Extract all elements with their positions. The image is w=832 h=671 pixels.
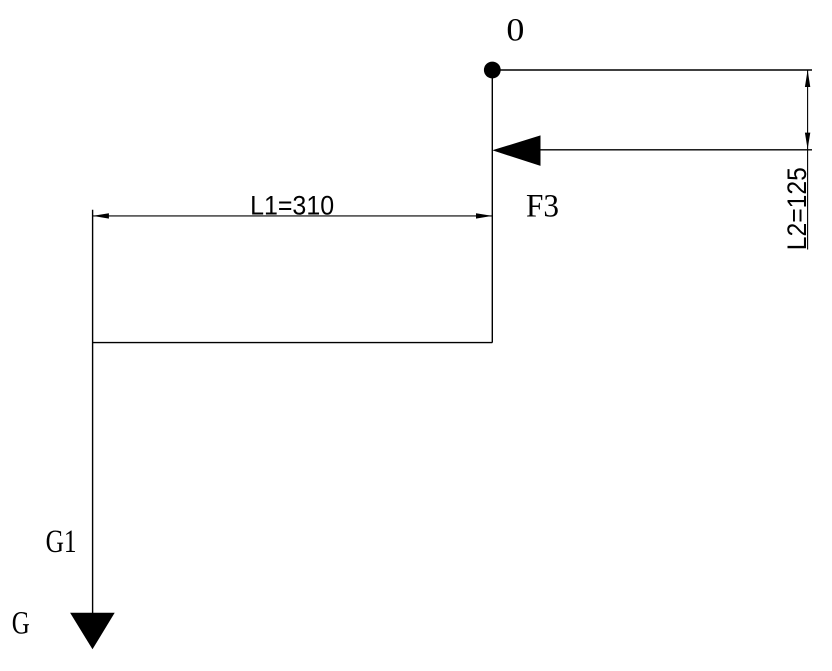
wire vertical member [491, 70, 493, 343]
dimension L1 right arrow [476, 213, 492, 218]
force G1 arrowhead [70, 613, 115, 650]
dimension L1 left arrow [93, 213, 109, 218]
dimension L2 bottom arrow [805, 133, 810, 150]
svg-text:G1: G1 [46, 524, 77, 560]
force F3 line [541, 149, 813, 151]
svg-text:G: G [12, 606, 30, 642]
force F3 arrowhead [492, 135, 540, 166]
wire top horizontal member [492, 69, 812, 71]
node O [484, 62, 501, 79]
wire bottom horizontal member [93, 342, 493, 344]
wire left vertical member / G1 force line [92, 210, 94, 614]
svg-text:0: 0 [506, 12, 524, 48]
dimension L2 line [807, 70, 809, 250]
dimension L2 top arrow [805, 70, 810, 87]
svg-text:F3: F3 [526, 189, 559, 225]
dimension L1 line [93, 215, 493, 217]
svg-text:L2=125: L2=125 [782, 167, 812, 250]
svg-text:L1=310: L1=310 [250, 190, 334, 220]
